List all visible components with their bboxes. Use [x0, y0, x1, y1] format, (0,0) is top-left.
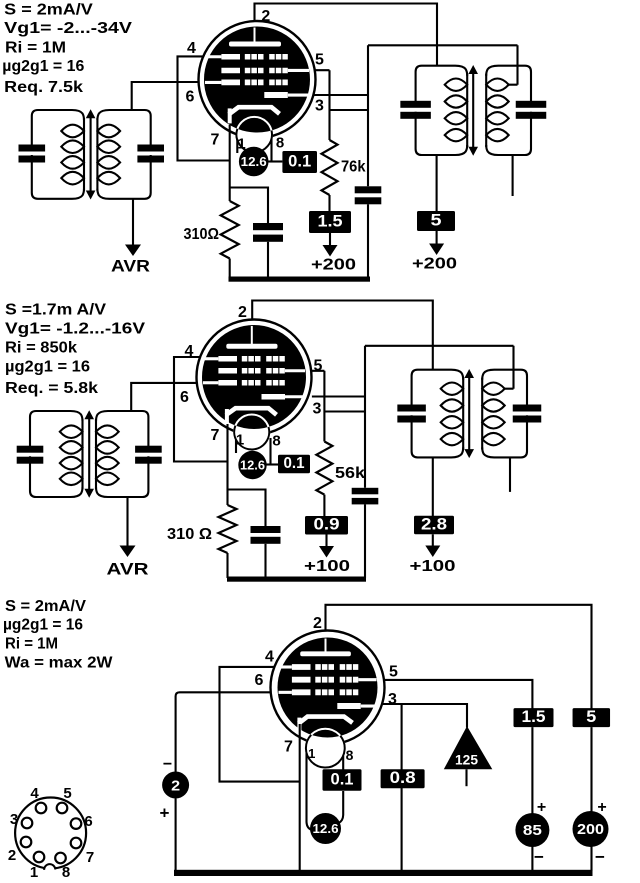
svg-text:µg2g1 = 16: µg2g1 = 16	[5, 359, 90, 376]
T4 primary winding	[441, 378, 464, 450]
resistor R2 76k	[322, 140, 338, 211]
svg-text:Ri = 1M: Ri = 1M	[5, 39, 66, 56]
svg-text:200: 200	[577, 822, 604, 838]
svg-text:1.5: 1.5	[318, 212, 343, 231]
T2 primary winding	[445, 74, 468, 147]
T1 secondary frame	[97, 110, 150, 145]
svg-text:2.8: 2.8	[421, 515, 447, 533]
wire screen-node vertical	[367, 45, 369, 186]
svg-text:0.1: 0.1	[284, 455, 305, 472]
svg-text:1: 1	[236, 432, 244, 449]
current box 5 mA (circuit 3)	[573, 708, 611, 727]
svg-text:0.1: 0.1	[288, 152, 311, 170]
T2 primary frame	[416, 66, 468, 102]
wire screen-node cross bar	[330, 109, 369, 111]
heater supply disc 12.6 V (circuit 3)	[307, 753, 344, 844]
svg-text:85: 85	[523, 823, 542, 839]
V3 grid g2	[292, 677, 358, 683]
svg-text:3: 3	[388, 691, 397, 708]
T3 primary winding	[60, 419, 83, 489]
svg-text:4: 4	[30, 785, 39, 802]
svg-text:Vg1= -2...-34V: Vg1= -2...-34V	[4, 20, 133, 37]
octal socket base diagram	[15, 798, 86, 869]
capacitor cathode bypass C8	[228, 490, 281, 579]
resistor R1 310 ohm	[221, 201, 239, 278]
current box 0.8	[381, 769, 425, 788]
socket pin 5	[57, 803, 68, 814]
IF transformer T4	[397, 346, 541, 458]
svg-text:4: 4	[187, 40, 196, 57]
V3 cathode	[299, 717, 353, 733]
T3 secondary tuning capacitor	[135, 446, 162, 453]
V3 pin number labels	[255, 615, 399, 763]
supply disc 200 V	[573, 811, 609, 847]
svg-text:5: 5	[315, 52, 324, 69]
T2 secondary top tap wire	[508, 45, 518, 84]
svg-text:2: 2	[8, 847, 16, 864]
svg-text:+100: +100	[304, 558, 350, 575]
svg-text:Req. = 5.8k: Req. = 5.8k	[5, 380, 98, 397]
arrow to +100 (anode circuit 2)	[425, 534, 440, 557]
V1 grid g1	[221, 80, 287, 86]
wire V2 grid pin 4 to cathode	[174, 357, 228, 462]
bias battery disc 2 V	[162, 772, 189, 799]
tube V2 envelope	[197, 320, 312, 435]
AVR wire with arrow	[125, 199, 141, 256]
svg-text:Req. 7.5k: Req. 7.5k	[4, 79, 83, 96]
V1 pin number labels	[186, 8, 325, 153]
ground rail circuit 3	[174, 870, 593, 876]
svg-text:8: 8	[276, 135, 284, 152]
wire V1 screen node to T2 secondary tap	[368, 44, 518, 46]
T3 variable-coupling arrow	[84, 410, 94, 497]
T3 primary tuning capacitor	[17, 446, 44, 453]
svg-text:3: 3	[10, 811, 18, 828]
svg-text:12.6: 12.6	[313, 821, 339, 836]
current box 5 mA	[417, 211, 455, 231]
V3 electrode lead-outs	[279, 667, 377, 692]
svg-text:2: 2	[171, 777, 180, 794]
svg-text:6: 6	[180, 389, 189, 406]
T2 primary tuning capacitor	[400, 101, 431, 108]
socket pin 2	[21, 837, 32, 848]
V2 cathode	[226, 408, 277, 424]
svg-text:Ri = 850k: Ri = 850k	[5, 340, 77, 357]
socket pin labels	[8, 785, 94, 881]
svg-text:S =1.7m A/V: S =1.7m A/V	[5, 302, 107, 319]
T3 secondary frame	[96, 411, 148, 446]
T4 secondary frame	[482, 370, 527, 405]
T2 secondary tuning capacitor	[516, 101, 547, 108]
svg-text:125: 125	[455, 753, 478, 768]
wire V2 cathode down	[226, 424, 228, 505]
circuit 1 parameter text	[2, 1, 133, 96]
svg-text:AVR: AVR	[107, 561, 149, 579]
svg-text:1: 1	[237, 136, 245, 153]
output voltage marker triangle 125	[444, 726, 493, 786]
svg-text:5: 5	[389, 664, 398, 681]
V1 grid g3	[221, 54, 287, 60]
svg-text:S = 2mA/V: S = 2mA/V	[4, 1, 93, 18]
svg-text:8: 8	[62, 864, 70, 881]
socket pin 1	[34, 852, 45, 863]
svg-text:310Ω: 310Ω	[184, 226, 220, 243]
T4 secondary tuning capacitor	[513, 405, 542, 412]
svg-text:6: 6	[255, 672, 264, 689]
wire T2 secondary bottom output	[512, 155, 514, 196]
T2 secondary winding	[486, 74, 509, 147]
V2 grid g2	[218, 368, 284, 374]
svg-text:AVR: AVR	[111, 258, 150, 276]
svg-text:6: 6	[186, 89, 195, 106]
svg-text:7: 7	[211, 427, 220, 444]
current box 1.5 mA (circuit 3)	[514, 708, 554, 727]
wire screen-node vertical (circuit 2)	[364, 346, 366, 488]
wire T1 secondary top to grid pin 6	[132, 82, 199, 110]
svg-text:+: +	[160, 804, 170, 823]
svg-text:3: 3	[315, 98, 324, 115]
tube V1 envelope	[199, 21, 316, 138]
T3 primary frame	[30, 411, 83, 446]
IF transformer T3	[17, 410, 162, 497]
T4 primary tuning capacitor	[397, 405, 426, 412]
ground rail circuit 1	[229, 277, 371, 282]
supply disc 85 V	[515, 813, 549, 847]
wire V1 cathode down	[229, 125, 231, 201]
wire T3 secondary top to grid pin 6	[131, 383, 197, 411]
V2 beam plate	[262, 394, 305, 400]
wire V3 grid pin 4 to cathode rail	[220, 667, 300, 782]
T2 secondary frame	[486, 66, 531, 102]
socket pin 3	[22, 818, 33, 829]
wire V1 grid pin 4 to cathode	[178, 56, 231, 160]
V1 anode	[229, 28, 281, 47]
svg-text:5: 5	[63, 785, 71, 802]
svg-text:2: 2	[238, 304, 247, 321]
svg-text:7: 7	[211, 132, 220, 149]
current box 1.5 mA	[309, 211, 351, 233]
svg-text:5: 5	[431, 211, 442, 230]
svg-text:5: 5	[314, 358, 323, 375]
svg-text:−: −	[595, 848, 605, 867]
svg-text:2: 2	[313, 615, 322, 632]
svg-text:7: 7	[86, 849, 94, 866]
T1 primary frame	[32, 110, 84, 145]
V3 anode	[300, 639, 351, 657]
resistor R4 56k	[316, 442, 332, 517]
svg-text:µg2g1 = 16: µg2g1 = 16	[2, 58, 84, 75]
wire V2 anode pin 2 to T4 primary	[252, 301, 433, 370]
wire bias battery to rail	[175, 799, 177, 872]
wire T2 primary bottom to +200	[436, 155, 438, 211]
V2 grid g1	[218, 380, 284, 386]
current box 0.9 mA	[305, 516, 348, 535]
svg-text:4: 4	[265, 649, 274, 666]
T4 secondary winding	[482, 378, 505, 450]
wire pin 3 (circuit 2)	[312, 395, 365, 397]
V2 pin number labels	[180, 304, 323, 450]
svg-text:0.9: 0.9	[314, 516, 340, 534]
heater current box 0.1 (circuit 3)	[323, 769, 362, 791]
V1 electrode lead-outs	[205, 57, 309, 83]
svg-text:0.1: 0.1	[331, 770, 354, 788]
wire V3 grid pin 6 to bias battery	[176, 692, 272, 772]
svg-text:0.8: 0.8	[390, 769, 416, 787]
V3 beam plate	[337, 703, 375, 709]
svg-text:1.5: 1.5	[522, 708, 546, 726]
svg-text:5: 5	[586, 708, 596, 726]
V1 grid g2	[221, 68, 287, 74]
svg-text:S = 2mA/V: S = 2mA/V	[5, 598, 87, 615]
svg-text:Ri = 1M: Ri = 1M	[5, 635, 58, 652]
socket pin 8	[55, 853, 66, 864]
svg-text:−: −	[163, 756, 172, 773]
T1 secondary tuning capacitor	[137, 145, 164, 152]
T4 variable-coupling arrow	[464, 369, 474, 458]
heater supply disc 12.6 V	[237, 139, 282, 176]
svg-text:1: 1	[30, 864, 38, 881]
svg-text:310 Ω: 310 Ω	[167, 526, 212, 543]
svg-text:+: +	[537, 799, 546, 816]
V3 grid g1	[292, 689, 358, 695]
wire pin 5 stub and riser (circuit 2)	[311, 371, 324, 442]
socket pin 4	[36, 803, 47, 814]
svg-text:3: 3	[313, 401, 322, 418]
AVR wire with arrow (circuit 2)	[120, 497, 136, 557]
arrow to +200 (anode)	[429, 231, 444, 255]
svg-text:+100: +100	[410, 558, 456, 575]
V2 grid g3	[218, 356, 284, 362]
socket pin 7	[71, 838, 82, 849]
V1 cathode	[229, 107, 280, 123]
svg-text:7: 7	[284, 739, 293, 756]
current box 2.8 mA	[414, 516, 454, 535]
IF transformer T1	[19, 109, 165, 199]
svg-text:+200: +200	[311, 257, 356, 274]
T1 variable-coupling arrow	[86, 109, 96, 199]
wire V2 screen node to T4 secondary tap	[365, 345, 514, 347]
svg-text:56k: 56k	[335, 465, 365, 482]
V2 anode	[226, 326, 277, 349]
wire pin-3 branch through 0.8 box to rail	[401, 704, 403, 871]
arrow to +200	[323, 233, 338, 257]
wire V3 anode pin 2 to 200V supply	[326, 605, 592, 709]
svg-text:+200: +200	[412, 256, 457, 273]
V1 beam plate	[264, 92, 308, 98]
wire pin 5 stub and riser	[315, 70, 330, 140]
V2 heater circle	[234, 415, 269, 450]
wire V3 screen pin 5 to 85V supply	[383, 680, 532, 709]
V3 heater circle	[306, 729, 345, 768]
heater supply disc 12.6 V (circuit 2)	[236, 438, 278, 479]
tube V3 envelope	[271, 631, 385, 745]
T4 secondary top tap wire	[504, 346, 514, 389]
wire 5-box to 200V disc	[590, 727, 592, 871]
T1 secondary winding	[97, 118, 120, 191]
capacitor screen decoupling C7	[352, 488, 379, 578]
wire 1.5-box to 85V disc	[531, 727, 533, 871]
svg-text:12.6: 12.6	[241, 155, 267, 169]
svg-text:Vg1= -1.2...-16V: Vg1= -1.2...-16V	[5, 321, 146, 338]
resistor R3 310 ohm (circuit 2)	[219, 505, 237, 578]
T1 primary winding	[61, 118, 84, 191]
heater current box 0.1	[282, 151, 317, 173]
svg-text:2: 2	[261, 8, 270, 25]
socket pin 6	[71, 818, 82, 829]
arrow to +100	[319, 535, 334, 558]
wire screen-node cross bar (circuit 2)	[324, 410, 365, 412]
T4 primary frame	[412, 370, 464, 405]
V2 electrode lead-outs	[203, 359, 305, 383]
svg-text:µg2g1 = 16: µg2g1 = 16	[3, 617, 83, 634]
svg-text:Wa = max 2W: Wa = max 2W	[5, 654, 113, 671]
T3 secondary winding	[96, 419, 119, 489]
IF transformer T2	[400, 45, 546, 155]
wire V3 cathode to rail	[299, 724, 301, 871]
T1 primary tuning capacitor	[19, 145, 46, 152]
svg-text:−: −	[534, 848, 544, 867]
circuit 2 parameter text	[5, 302, 146, 398]
wire V1 anode pin 2 to T2 primary	[255, 4, 438, 66]
svg-text:8: 8	[272, 433, 280, 450]
wire V3 pin 3 to output marker	[381, 704, 467, 728]
circuit 3 parameter text	[3, 598, 113, 672]
V1 heater circle	[236, 117, 272, 153]
wire T4 primary bottom to +100	[432, 457, 434, 516]
capacitor cathode bypass C4	[230, 188, 283, 279]
svg-text:1: 1	[308, 746, 315, 761]
ground rail circuit 2	[227, 577, 366, 582]
capacitor screen decoupling C3	[355, 186, 382, 278]
V3 grid g3	[292, 664, 358, 670]
svg-text:6: 6	[84, 813, 92, 830]
wire T4 secondary bottom output	[509, 457, 511, 492]
socket key notch	[44, 863, 56, 875]
svg-text:76k: 76k	[341, 159, 366, 176]
svg-text:8: 8	[346, 747, 354, 763]
heater current box 0.1 (circuit 2)	[278, 455, 310, 474]
svg-text:12.6: 12.6	[240, 459, 265, 473]
T2 variable-coupling arrow	[468, 65, 478, 156]
wire pin 3	[313, 94, 368, 96]
